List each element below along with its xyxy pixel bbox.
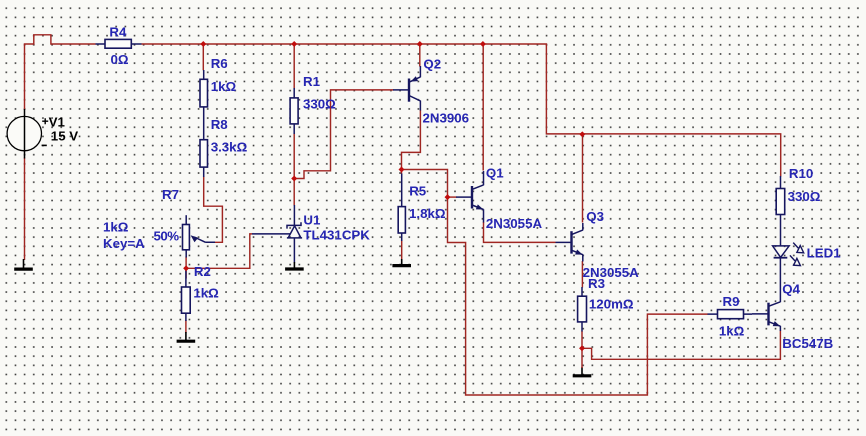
wire node F to U1 ref (186, 234, 252, 268)
node A junction R1-U1-Q2base (291, 176, 297, 182)
ground U1 (293, 262, 295, 269)
wire rail to Q2 emitter (419, 44, 421, 67)
resistor R4 (105, 39, 131, 48)
svg-text:330Ω: 330Ω (303, 97, 336, 112)
transistor Q3 (556, 223, 583, 262)
lead R3 (581, 287, 583, 332)
resistor R5 (398, 207, 405, 233)
svg-text:Q1: Q1 (486, 165, 504, 180)
svg-text:R10: R10 (789, 166, 813, 181)
transistor Q1 (456, 171, 484, 223)
svg-text:V1: V1 (49, 114, 66, 129)
wire V1 to ground (24, 158, 26, 261)
R7 wiper arrow (194, 237, 215, 242)
svg-text:R7: R7 (162, 187, 179, 202)
svg-text:TL431CPK: TL431CPK (303, 227, 370, 242)
wire R3 to node E (581, 331, 583, 348)
wire R5 to ground (401, 241, 403, 260)
svg-text:U1: U1 (303, 212, 321, 227)
lead R10 top (780, 176, 782, 189)
node junction rail-R1 (291, 41, 297, 47)
svg-text:0Ω: 0Ω (111, 52, 129, 67)
svg-text:Q3: Q3 (586, 209, 604, 224)
resistor R10 (776, 189, 785, 215)
resistor R6 (200, 79, 208, 107)
wire node A to Q2 base (294, 90, 393, 179)
lead R6/R8 (203, 70, 205, 140)
node junction rail-Q2 (417, 41, 423, 47)
svg-text:15 V: 15 V (51, 129, 78, 144)
wire Q3 collector to node D (582, 134, 584, 222)
svg-text:2N3055A: 2N3055A (486, 216, 543, 231)
shunt regulator U1 (252, 205, 302, 263)
svg-text:2N3906: 2N3906 (423, 110, 470, 125)
wire R7 to R2 node (185, 257, 187, 279)
lead R2 (185, 268, 187, 321)
svg-text:1.8kΩ: 1.8kΩ (409, 206, 446, 221)
lead R1 (293, 88, 295, 134)
node B junction Q2-R5 (399, 167, 405, 173)
wire R8 to R7 wiper (204, 177, 223, 243)
svg-text:1kΩ: 1kΩ (193, 285, 219, 300)
svg-text:LED1: LED1 (807, 246, 842, 261)
LED1 emission arrows (790, 243, 804, 266)
wire node E to Q4 emitter (582, 331, 780, 360)
resistor R9 (718, 310, 744, 319)
svg-text:R1: R1 (303, 74, 321, 89)
wire node E to ground R3 (581, 348, 583, 368)
svg-text:R5: R5 (409, 183, 427, 198)
wire node B to node C (402, 170, 448, 198)
lead R10 to LED1 (780, 215, 782, 247)
wire Q1 emitter to Q3 base (484, 222, 556, 242)
wire V1 top to R4 (with hop) (25, 35, 96, 110)
node junction rail-Q1 (480, 41, 486, 47)
node F junction R7-R2-U1ref (183, 265, 189, 271)
svg-text:R9: R9 (723, 294, 740, 309)
wire rail to R1 (293, 44, 295, 89)
svg-text:Q4: Q4 (782, 282, 800, 297)
ground R2 (185, 332, 187, 341)
wire R2 to ground (185, 320, 187, 333)
svg-text:Key=A: Key=A (103, 236, 145, 251)
resistor R8 (200, 140, 208, 167)
Q3 emitter arrow (575, 250, 583, 255)
lead R8 bottom (203, 167, 205, 177)
svg-text:Q2: Q2 (423, 57, 441, 72)
ground R3 (581, 367, 583, 376)
wire node B to R5 (401, 170, 403, 175)
svg-text:1kΩ: 1kΩ (719, 324, 745, 339)
diode LED1 (773, 246, 790, 258)
ground R5 (401, 259, 403, 266)
svg-text:50%: 50% (154, 229, 180, 244)
wire R1 to U1 cathode (293, 134, 295, 206)
potentiometer R7 (185, 215, 187, 224)
svg-text:3.3kΩ: 3.3kΩ (211, 140, 248, 155)
wire Q3 emitter to R3 (581, 261, 583, 288)
node C junction Q1 base (445, 194, 451, 200)
node junction rail-R6 (200, 41, 206, 47)
node D junction Q3 collector (579, 131, 585, 137)
voltage source V1 (7, 109, 48, 159)
lead R9 (708, 313, 753, 315)
transistor Q2 (393, 66, 420, 111)
lead R4 (96, 43, 142, 45)
wire Q2 collector to node B (402, 110, 421, 170)
resistor R2 (182, 287, 191, 313)
wire node C to R9 (448, 197, 708, 395)
svg-text:R8: R8 (211, 117, 228, 132)
svg-text:1kΩ: 1kΩ (211, 79, 237, 94)
node E junction R3-Q4 (579, 345, 585, 351)
svg-text:R2: R2 (194, 264, 211, 279)
transistor Q4 (752, 258, 780, 331)
svg-text:330Ω: 330Ω (788, 189, 821, 204)
wire rail to Q1 collector (482, 44, 484, 171)
lead R5 (401, 174, 403, 242)
resistor R3 (578, 296, 587, 322)
svg-text:BC547B: BC547B (782, 336, 833, 351)
svg-text:1kΩ: 1kΩ (103, 220, 129, 235)
Q2 emitter arrow (411, 76, 419, 81)
svg-text:R4: R4 (109, 24, 127, 39)
resistor R1 (290, 98, 298, 124)
Q4 emitter arrow (773, 321, 781, 326)
wire R4 right along top rail to R10 (142, 44, 781, 177)
wire node C to Q1 base (448, 196, 457, 198)
ground V1 (23, 259, 25, 269)
svg-text:R3: R3 (588, 276, 605, 291)
Q1 emitter arrow (476, 204, 484, 209)
svg-text:120mΩ: 120mΩ (589, 297, 634, 312)
wire rail to R6 (202, 44, 204, 70)
svg-text:R6: R6 (211, 56, 228, 71)
